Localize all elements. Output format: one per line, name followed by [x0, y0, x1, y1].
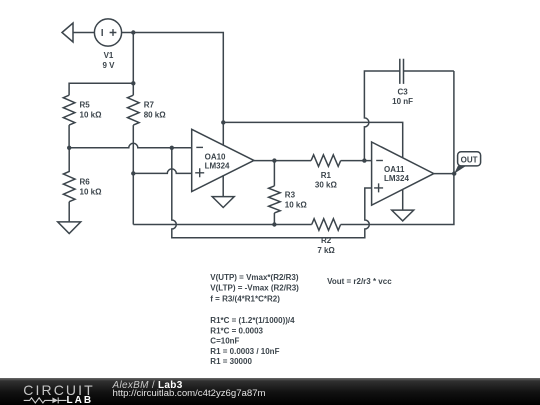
wire V1 neg	[73, 32, 94, 34]
OUT flag pointer	[454, 166, 466, 174]
footer author/title	[113, 381, 183, 391]
resistor R6	[63, 148, 75, 202]
wire V+ power line to OA11	[223, 122, 402, 157]
svg-text:R1 = 0.0003 / 10nF: R1 = 0.0003 / 10nF	[210, 347, 279, 356]
wire R7 branch vertical	[132, 33, 134, 96]
wire OA11 output down and left to R2	[341, 71, 454, 225]
OA11 minus symbol	[376, 160, 383, 162]
svg-text:LM324: LM324	[205, 161, 230, 170]
voltage source V1	[94, 19, 121, 46]
svg-text:OA11: OA11	[384, 165, 405, 174]
wire top rail from V1 to OA10 V+ pin	[122, 33, 224, 145]
capacitor C3	[400, 59, 404, 84]
wire R6 to ground	[68, 202, 70, 222]
wire top rail to R5	[69, 83, 133, 95]
flag OUT	[458, 152, 481, 166]
wire R7 bottom down to feedback line	[132, 125, 134, 224]
wire C3 right	[404, 70, 454, 72]
svg-text:R1: R1	[321, 171, 332, 180]
svg-text:10 kΩ: 10 kΩ	[285, 200, 308, 209]
wire divider node to OA10 minus input (hop over R7 line)	[69, 143, 192, 148]
resistor R7	[128, 95, 140, 125]
footer url	[113, 389, 266, 399]
wire R3 bottom lead	[273, 213, 275, 225]
wire OA10 plus input from R7 line (hop over vref drop)	[133, 169, 191, 174]
svg-text:R1 = 30000: R1 = 30000	[210, 357, 252, 366]
svg-text:C3: C3	[397, 87, 408, 96]
svg-text:R6: R6	[80, 177, 91, 186]
svg-text:10 kΩ: 10 kΩ	[80, 187, 103, 196]
ground below R6	[58, 222, 81, 234]
wire OA11 V- pin to ground	[402, 189, 404, 210]
resistor R3	[269, 186, 281, 213]
svg-text:10 kΩ: 10 kΩ	[80, 111, 103, 120]
ground (rotated, V1 negative terminal)	[62, 23, 73, 42]
wire C3 left branch (hop over power line)	[364, 71, 399, 161]
svg-text:R1*C = (1.2*(1/1000))/4: R1*C = (1.2*(1/1000))/4	[210, 316, 295, 325]
svg-text:10 nF: 10 nF	[392, 97, 413, 106]
svg-text:80 kΩ: 80 kΩ	[144, 111, 167, 120]
svg-text:LM324: LM324	[384, 174, 409, 183]
op-amp OA11	[372, 142, 434, 205]
wire vref vertical down, along bottom, up to OA11 plus input	[172, 148, 372, 238]
wire OA10 output	[254, 160, 311, 162]
resistor R2	[312, 219, 341, 231]
op-amp OA10	[192, 129, 254, 191]
OA10 plus symbol	[195, 168, 204, 177]
svg-text:R3: R3	[285, 190, 296, 199]
resistor R1	[311, 155, 341, 167]
svg-text:R7: R7	[144, 101, 155, 110]
svg-text:R2: R2	[321, 236, 332, 245]
svg-text:9 V: 9 V	[102, 61, 115, 70]
svg-text:V1: V1	[104, 51, 114, 60]
svg-text:f = R3/(4*R1*C*R2): f = R3/(4*R1*C*R2)	[210, 294, 280, 303]
svg-text:C=10nF: C=10nF	[210, 337, 239, 346]
svg-text:V(UTP) = Vmax*(R2/R3): V(UTP) = Vmax*(R2/R3)	[210, 273, 299, 282]
CircuitLab logo	[0, 378, 100, 405]
svg-text:OA10: OA10	[205, 152, 226, 161]
wire R1 right to OA11 minus	[341, 160, 372, 162]
ground below OA10	[212, 197, 234, 208]
svg-text:30 kΩ: 30 kΩ	[315, 181, 338, 190]
wire R5 bottom	[68, 125, 70, 148]
OA10 minus symbol	[196, 146, 203, 148]
wire feedback line left segment with R2	[133, 224, 311, 226]
resistor R5	[63, 95, 75, 125]
wire OA10 V- pin to ground	[222, 175, 224, 196]
OA11 plus symbol	[374, 183, 383, 192]
ground below OA11	[392, 210, 414, 221]
svg-text:OUT: OUT	[461, 155, 478, 164]
svg-text:7 kΩ: 7 kΩ	[317, 246, 335, 255]
node junction dots	[131, 30, 135, 34]
wire OA11 output	[434, 173, 454, 175]
svg-text:R1*C = 0.0003: R1*C = 0.0003	[210, 327, 263, 336]
svg-text:LAB: LAB	[67, 395, 94, 405]
svg-text:R5: R5	[80, 101, 91, 110]
svg-text:Vout = r2/r3 * vcc: Vout = r2/r3 * vcc	[327, 277, 392, 286]
wire R3 top lead	[273, 161, 275, 186]
svg-text:V(LTP) = -Vmax (R2/R3): V(LTP) = -Vmax (R2/R3)	[210, 284, 299, 293]
